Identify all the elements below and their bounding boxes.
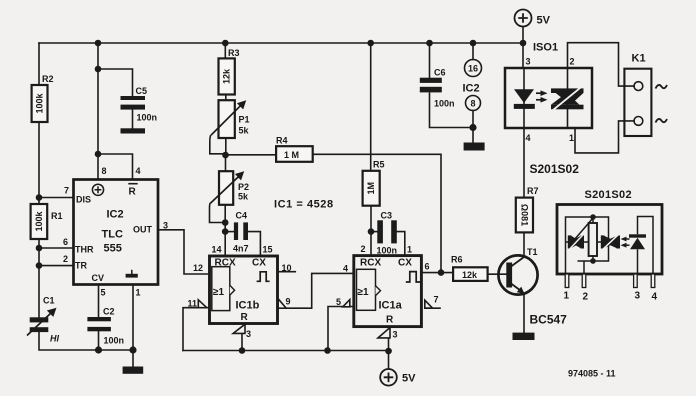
detail wire triac axis xyxy=(566,241,621,243)
wire pin1 column xyxy=(132,285,134,351)
svg-text:C6: C6 xyxy=(434,68,446,78)
svg-text:5: 5 xyxy=(336,297,341,307)
svg-text:3: 3 xyxy=(635,291,641,302)
svg-text:10: 10 xyxy=(282,263,292,273)
ISO1 light arrows xyxy=(536,90,548,102)
IC1a pulse glyph xyxy=(406,272,420,282)
K1 terminal top xyxy=(634,82,643,91)
wire IC1b pin10 stub xyxy=(278,271,295,273)
wire C3 right plate to pin1 xyxy=(397,232,405,256)
IC1a sub-box notch xyxy=(376,286,381,296)
wire R3 to P1 xyxy=(225,95,227,101)
wire rail to ground symbol xyxy=(132,350,134,367)
svg-text:100n: 100n xyxy=(104,336,125,346)
wire IC1a pin6 to R6 xyxy=(422,272,454,274)
IC1b trigger sub-box xyxy=(212,267,230,311)
IC1b pulse glyph xyxy=(257,272,270,282)
wire IC1a pin3 xyxy=(388,338,390,351)
supply 5V symbol bottom xyxy=(380,369,397,386)
wire power pin8 to ground xyxy=(472,111,474,143)
wire P2 bottom to pin14 xyxy=(224,205,226,256)
svg-text:TR: TR xyxy=(75,261,87,271)
op IC2 555 box xyxy=(74,180,159,285)
svg-text:IC1a: IC1a xyxy=(379,300,403,312)
svg-text:1: 1 xyxy=(136,288,141,298)
wire IC1b pin3 xyxy=(241,334,243,351)
wire R1 bottom to THR pin6 xyxy=(39,239,74,248)
T1 collector lead xyxy=(511,257,524,267)
detail led symbol xyxy=(629,234,646,249)
svg-text:CX: CX xyxy=(398,258,412,269)
ground bottom left rail xyxy=(123,367,144,374)
wire C5 / pin8 column xyxy=(97,43,99,180)
svg-text:S201S02: S201S02 xyxy=(530,162,580,176)
resistor R6 xyxy=(453,267,488,281)
svg-text:8: 8 xyxy=(470,99,475,109)
svg-text:100n: 100n xyxy=(377,246,398,256)
svg-text:1M: 1M xyxy=(366,182,376,195)
svg-text:4n7: 4n7 xyxy=(233,244,249,254)
wire R7 to T1 collector xyxy=(523,232,525,256)
svg-text:12k: 12k xyxy=(222,68,232,84)
capacitor C3 plates xyxy=(377,220,383,243)
gnd marker bar inside 555 xyxy=(126,274,138,278)
wire ISO1 pin1 to K1 bottom terminal xyxy=(575,121,634,153)
ground below C5 xyxy=(121,128,146,133)
ISO1 triac symbol xyxy=(551,88,584,109)
svg-text:≥1: ≥1 xyxy=(358,287,369,298)
wire R1 top stub xyxy=(38,198,40,205)
svg-text:974085 - 11: 974085 - 11 xyxy=(568,369,616,379)
detail wire led anode down to pin3 xyxy=(637,249,639,274)
detail triac right xyxy=(601,235,620,248)
K1 terminal bottom xyxy=(634,117,643,126)
svg-text:16: 16 xyxy=(468,64,478,74)
svg-text:14: 14 xyxy=(212,245,222,255)
svg-text:T1: T1 xyxy=(527,247,538,257)
svg-text:2: 2 xyxy=(63,254,68,264)
wire R5 top column xyxy=(370,43,372,171)
svg-text:5k: 5k xyxy=(239,126,250,136)
potentiometer P2 wiper arrow xyxy=(210,176,239,204)
resistor R5 xyxy=(363,171,380,206)
svg-text:5V: 5V xyxy=(402,373,416,385)
svg-text:5V: 5V xyxy=(537,15,551,27)
wire 5V symbol to rail xyxy=(522,27,524,44)
svg-text:R: R xyxy=(129,187,137,198)
ISO1 LED symbol xyxy=(514,89,535,109)
ISO1 triac white gap xyxy=(553,87,582,111)
IC power pin circle 8 xyxy=(466,96,481,111)
svg-text:P2: P2 xyxy=(238,182,249,192)
wire top +5V rail xyxy=(39,42,523,44)
svg-text:R: R xyxy=(386,315,394,326)
svg-text:1: 1 xyxy=(407,245,412,255)
wire ISO1 pin2 to K1 top terminal xyxy=(568,43,635,86)
wire R6 to T1 base xyxy=(488,273,507,275)
wire P2 wiper tail xyxy=(209,204,225,223)
connector K1 box xyxy=(624,69,651,136)
svg-text:IC1 = 4528: IC1 = 4528 xyxy=(274,199,334,211)
detail junction dots xyxy=(590,214,596,220)
resistor R2 xyxy=(32,85,48,122)
wire rail to 5V symbol xyxy=(388,351,390,369)
svg-text:R: R xyxy=(241,312,249,323)
detail wire gate diagonal xyxy=(572,218,594,243)
wire branch to C5 xyxy=(98,69,133,96)
IC1a trigger sub-box xyxy=(357,269,376,310)
svg-text:4: 4 xyxy=(526,133,531,143)
svg-text:≥1: ≥1 xyxy=(213,287,224,298)
svg-text:RCX: RCX xyxy=(215,258,236,269)
svg-text:4: 4 xyxy=(652,292,658,303)
wire C1 bottom to ground rail xyxy=(39,332,133,350)
detail wire left loop xyxy=(566,217,609,274)
IC power pin circle 16 xyxy=(465,60,482,77)
IC1b sub-box notch xyxy=(230,285,235,295)
svg-text:9: 9 xyxy=(286,297,291,307)
svg-text:R3: R3 xyxy=(228,48,240,58)
ground below C6 xyxy=(464,143,485,151)
transistor T1 circle xyxy=(498,255,537,294)
resistor R1 xyxy=(31,204,48,239)
svg-text:15: 15 xyxy=(263,245,273,255)
wire C4 right plate to pin15 xyxy=(248,232,260,256)
svg-text:IC2: IC2 xyxy=(463,83,480,95)
svg-text:1 M: 1 M xyxy=(284,150,299,160)
junction dots left section xyxy=(36,40,527,355)
potentiometer P1 xyxy=(219,100,235,138)
svg-text:2: 2 xyxy=(361,244,366,254)
wire P1 bottom to node xyxy=(225,138,227,155)
detail led arrows pointing left xyxy=(621,237,630,248)
svg-text:100k: 100k xyxy=(34,210,44,231)
T1 emitter lead with arrow xyxy=(511,284,521,291)
wire C6 bottom to ground node xyxy=(430,93,474,127)
svg-text:R6: R6 xyxy=(451,255,463,265)
svg-text:CV: CV xyxy=(92,273,105,283)
svg-text:Ω081: Ω081 xyxy=(519,204,529,226)
svg-text:100n: 100n xyxy=(434,99,455,109)
supply 5V symbol top xyxy=(515,10,532,27)
svg-text:3: 3 xyxy=(526,57,531,67)
svg-text:RCX: RCX xyxy=(360,258,381,269)
wire node to C4 left plate xyxy=(225,231,234,233)
wire R4 right to pin6 node xyxy=(313,154,441,272)
svg-text:C5: C5 xyxy=(136,86,148,96)
wire bottom +5V rail xyxy=(183,350,391,352)
svg-text:K1: K1 xyxy=(632,53,646,65)
overline of R pin4 label xyxy=(128,183,137,185)
wire ISO1 pin4 to R7 xyxy=(523,128,525,198)
svg-text:C2: C2 xyxy=(103,307,115,317)
svg-text:CX: CX xyxy=(252,258,266,269)
detail gate resistor xyxy=(589,223,597,256)
svg-text:OUT: OUT xyxy=(133,225,153,235)
svg-text:3: 3 xyxy=(163,221,168,231)
wire node to C3 left plate xyxy=(371,231,377,233)
wire left column R2 top xyxy=(38,43,40,85)
capacitor C6 plates xyxy=(420,78,442,83)
IC1a pin3 reset triangle xyxy=(378,328,390,338)
svg-text:DIS: DIS xyxy=(76,195,91,205)
capacitor C2 plates xyxy=(87,317,111,321)
IC1a pin7 stub xyxy=(425,307,441,309)
ISO1 triac wire xyxy=(567,68,569,128)
svg-text:7: 7 xyxy=(64,186,69,196)
wire left column to C1 xyxy=(38,266,40,317)
wire IC1b pin11 to bottom rail xyxy=(183,308,210,351)
svg-text:6: 6 xyxy=(63,237,68,247)
IC1a pin5 edge triangle xyxy=(343,300,350,307)
wire node to P2 top xyxy=(225,155,227,171)
svg-text:1: 1 xyxy=(569,133,574,143)
svg-text:IC2: IC2 xyxy=(107,209,124,221)
plus symbol inside 555 pin8 xyxy=(92,184,103,195)
svg-text:TLC: TLC xyxy=(102,229,123,241)
T1 base bar xyxy=(506,263,512,288)
IC1b pin11 edge triangle xyxy=(198,300,207,308)
wire branch to pin4 xyxy=(98,154,133,180)
wire IC1a pin5 to rail xyxy=(328,307,354,351)
detail pin stubs 1-4 xyxy=(565,274,655,288)
svg-text:12: 12 xyxy=(193,263,203,273)
wire C2 bottom to rail xyxy=(98,332,100,351)
svg-text:R1: R1 xyxy=(51,211,63,221)
svg-text:5k: 5k xyxy=(238,192,249,202)
wire C3 node to pin2 xyxy=(370,232,372,256)
wire OUT pin3 to IC1b pin12 xyxy=(158,230,210,274)
svg-text:C3: C3 xyxy=(381,211,393,221)
detail triac left xyxy=(568,235,584,248)
svg-text:IC1b: IC1b xyxy=(236,300,260,312)
gnd marker inside 555 pin1 xyxy=(131,270,133,274)
svg-text:1: 1 xyxy=(564,291,570,302)
detail wire resistor column top xyxy=(592,217,594,223)
potentiometer P1 wiper arrow xyxy=(211,105,242,136)
svg-text:BC547: BC547 xyxy=(530,313,568,327)
IC1a pin7 edge triangle xyxy=(425,300,433,308)
svg-text:4: 4 xyxy=(343,264,348,274)
svg-text:R5: R5 xyxy=(373,160,385,170)
svg-text:3: 3 xyxy=(393,330,398,340)
svg-text:R2: R2 xyxy=(42,74,54,84)
wire R5 bottom to C3 node xyxy=(370,206,372,232)
svg-text:4: 4 xyxy=(136,166,141,176)
wire R3 top xyxy=(224,43,226,58)
detail wire led cathode to pin4 xyxy=(638,217,654,275)
svg-text:C4: C4 xyxy=(236,211,248,221)
ground T1 emitter xyxy=(513,333,535,340)
svg-text:8: 8 xyxy=(102,166,107,176)
monostable IC1b box xyxy=(210,256,278,324)
svg-text:12k: 12k xyxy=(462,270,478,280)
wire R2 bottom to pin7 xyxy=(39,122,74,198)
wire rail to ISO1 pin3 xyxy=(522,43,524,68)
capacitor C1 arrow xyxy=(27,308,57,336)
S201S02 detail outer box xyxy=(557,205,662,275)
capacitor C5 plates xyxy=(121,96,146,100)
svg-text:R4: R4 xyxy=(276,136,288,146)
resistor R7 xyxy=(516,198,533,233)
svg-text:2: 2 xyxy=(570,57,575,67)
resistor R4 xyxy=(276,146,313,162)
wire T1 emitter to ground xyxy=(523,294,525,333)
svg-text:3: 3 xyxy=(246,329,251,339)
svg-text:6: 6 xyxy=(425,262,430,272)
capacitor C1 plates (variable) xyxy=(30,317,49,322)
wire C6 top xyxy=(429,43,431,78)
potentiometer P2 xyxy=(219,171,233,205)
wire IC power pin16 top xyxy=(472,43,474,60)
wire CV pin5 to C2 xyxy=(98,285,100,318)
monostable IC1a box xyxy=(354,256,422,327)
svg-text:ISO1: ISO1 xyxy=(533,42,558,54)
svg-text:HI: HI xyxy=(50,334,59,344)
ISO1 LED wire xyxy=(523,68,525,128)
svg-text:11: 11 xyxy=(188,299,198,309)
capacitor C4 plates xyxy=(234,222,238,240)
wire IC1b pin9 to IC1a pin4 xyxy=(278,273,354,308)
optocoupler ISO1 box xyxy=(505,68,592,128)
K1 tilde bottom xyxy=(656,119,668,123)
svg-text:S201S02: S201S02 xyxy=(585,189,632,201)
svg-text:100k: 100k xyxy=(35,92,45,113)
svg-text:2: 2 xyxy=(583,292,589,303)
svg-text:P1: P1 xyxy=(239,115,250,125)
svg-text:100n: 100n xyxy=(137,113,158,123)
wire node TR pin2 xyxy=(39,248,74,266)
wire P1 wiper tail xyxy=(210,136,226,154)
svg-text:5: 5 xyxy=(101,288,106,298)
resistor R3 xyxy=(219,58,235,94)
wire C5 bottom to ground xyxy=(132,110,134,129)
IC1b pin9 edge triangle xyxy=(278,299,286,308)
K1 tilde top xyxy=(656,85,668,89)
svg-text:555: 555 xyxy=(104,243,122,255)
svg-text:C1: C1 xyxy=(43,296,55,306)
svg-text:THR: THR xyxy=(75,245,94,255)
detail wire resistor column bottom xyxy=(592,256,594,261)
svg-text:R7: R7 xyxy=(527,186,539,196)
wire R4 left xyxy=(226,154,277,156)
svg-text:7: 7 xyxy=(434,295,439,305)
IC1b pin3 reset triangle xyxy=(233,324,245,333)
